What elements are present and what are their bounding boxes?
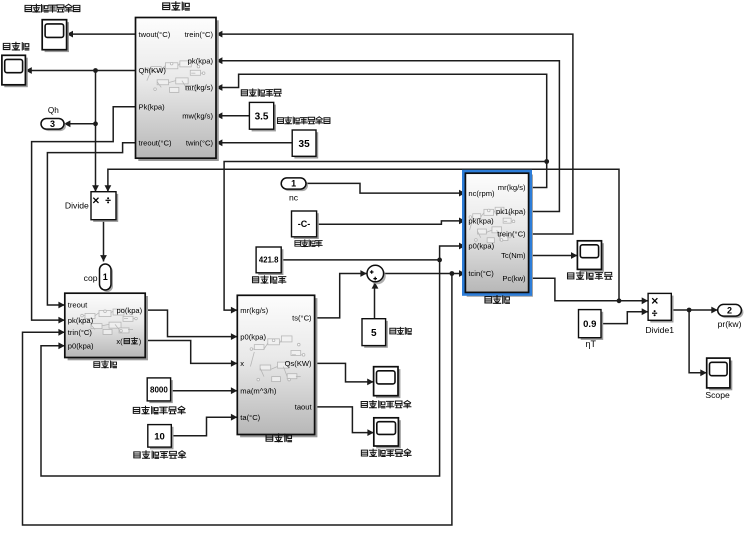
- expansion valve block: [68, 296, 148, 360]
- input port 1 nc: [283, 180, 308, 191]
- svg-text:ma(m^3/h): ma(m^3/h): [240, 386, 277, 395]
- svg-text:x: x: [240, 359, 244, 368]
- svg-text:twin(°C): twin(°C): [186, 139, 214, 148]
- node tcin junction: [450, 271, 455, 276]
- constant 5 superheat: [364, 321, 388, 348]
- wire valve po to evaporator p0: [145, 310, 237, 337]
- svg-text:0.9: 0.9: [583, 319, 596, 330]
- wire treout to valve treout: [47, 143, 135, 305]
- scope block compressor torque: [580, 243, 604, 272]
- wire port nc to compressor nc: [306, 183, 465, 193]
- svg-text:mr(kg/s): mr(kg/s): [185, 83, 213, 92]
- svg-text:2: 2: [727, 305, 732, 315]
- svg-text:8000: 8000: [150, 385, 168, 394]
- constant 0.9 efficiency: [581, 312, 604, 340]
- constant 8000 outdoor air flow: [149, 380, 172, 403]
- wire constant 421.8 to compressor p0 and valve p0: [281, 246, 465, 260]
- wire constant -C- to compressor pk: [317, 221, 466, 224]
- svg-text:ts(°C): ts(°C): [292, 314, 312, 323]
- svg-text:1: 1: [291, 179, 296, 189]
- node Qh junction 2: [93, 121, 98, 126]
- svg-text:5: 5: [371, 328, 377, 339]
- wire constant 0.9 to Divide1: [601, 312, 648, 324]
- svg-text:1: 1: [103, 272, 108, 282]
- wire constant 10 to evaporator ta: [171, 417, 237, 436]
- compressor block (blue selected): [467, 175, 533, 297]
- svg-text:mr(kg/s): mr(kg/s): [240, 306, 268, 315]
- svg-text:mr(kg/s): mr(kg/s): [498, 183, 526, 192]
- constant 3.5 cooling water flow: [252, 105, 276, 132]
- wire valve x to evaporator x: [145, 341, 237, 364]
- constant 421.8 evaporation pressure: [258, 249, 283, 275]
- svg-text:treout: treout: [68, 301, 88, 310]
- svg-text:po(kpa): po(kpa): [116, 306, 142, 315]
- svg-text:x(: x(: [116, 337, 123, 346]
- node Qh junction 1: [93, 68, 98, 73]
- wire Divide output to cop port: [103, 220, 105, 262]
- wire constant 5 to sum: [374, 283, 376, 319]
- node 421.8 junction: [437, 258, 442, 263]
- wire Pc branch to Divide input2: [108, 169, 619, 301]
- node mr junction: [544, 159, 549, 164]
- condenser block: [138, 20, 219, 161]
- svg-text:ηT: ηT: [586, 339, 597, 349]
- scope block cooling water outlet temperature: [45, 22, 69, 52]
- svg-text:pk1(kpa): pk1(kpa): [496, 207, 526, 216]
- svg-text:Pk(kpa): Pk(kpa): [139, 103, 166, 112]
- svg-text:Tc(Nm): Tc(Nm): [501, 251, 526, 260]
- svg-text:cop: cop: [84, 273, 98, 283]
- evaporator block: [240, 298, 317, 437]
- wire Qh to scope and port: [25, 70, 135, 72]
- svg-text:trein(°C): trein(°C): [185, 30, 214, 39]
- node Pc junction: [617, 298, 622, 303]
- svg-text:Pc(kw): Pc(kw): [502, 274, 526, 283]
- output port 3 Qh: [43, 121, 66, 132]
- constant 35 cooling water inlet temp: [294, 132, 318, 158]
- svg-text:pr(kw): pr(kw): [718, 319, 742, 329]
- svg-text:35: 35: [299, 139, 311, 150]
- svg-text:p0(kpa): p0(kpa): [240, 332, 266, 341]
- svg-text:-C-: -C-: [298, 219, 311, 229]
- scope block evaporator heat exchanger: [376, 369, 400, 398]
- svg-text:Divide1: Divide1: [645, 325, 674, 335]
- svg-text:trein(°C): trein(°C): [497, 230, 526, 239]
- svg-text:3: 3: [50, 119, 55, 129]
- wire constant 3.5 to condenser mw: [216, 115, 249, 117]
- scope block Scope: [709, 361, 732, 391]
- wire constant 8000 to evaporator ma: [171, 390, 238, 392]
- svg-text:Qh(KW): Qh(KW): [139, 66, 167, 75]
- wire sum output to compressor tcin and valve trin: [384, 273, 466, 275]
- wire compressor mr out to condenser mr in: [216, 74, 547, 187]
- svg-text:twout(°C): twout(°C): [139, 30, 171, 39]
- node Divide1 output junction: [687, 308, 692, 313]
- svg-text:Qs(KW): Qs(KW): [285, 359, 312, 368]
- wire mr branch to evaporator mr in: [224, 162, 547, 311]
- svg-text:Scope: Scope: [705, 390, 730, 400]
- wire evaporator ts to sum: [315, 274, 367, 318]
- wire twout to scope: [67, 33, 136, 35]
- svg-text:pk(kpa): pk(kpa): [188, 56, 214, 65]
- wire Pk to valve pk: [32, 107, 136, 320]
- svg-text:treout(°C): treout(°C): [139, 139, 172, 148]
- wire Qh branch down to port 3 and Divide: [95, 71, 97, 192]
- scope block heating capacity: [4, 58, 28, 87]
- svg-text:10: 10: [154, 431, 165, 442]
- svg-text:ta(°C): ta(°C): [240, 413, 260, 422]
- svg-text:tcin(°C): tcin(°C): [468, 269, 494, 278]
- wire compressor trein to condenser trein: [216, 34, 573, 234]
- wire Divide1 output to port 2 and Scope: [671, 309, 717, 311]
- sum block: [369, 268, 386, 285]
- svg-text:nc: nc: [289, 193, 299, 203]
- svg-text:p0(kpa): p0(kpa): [68, 342, 94, 351]
- svg-text:Qh: Qh: [48, 106, 59, 115]
- svg-text:p0(kpa): p0(kpa): [468, 242, 494, 251]
- svg-text:pk(kpa): pk(kpa): [68, 316, 94, 325]
- svg-text:Divide: Divide: [65, 201, 89, 211]
- scope block air outlet temperature: [376, 420, 401, 448]
- constant 10 outdoor dry bulb temperature: [150, 427, 174, 450]
- svg-text:nc(rpm): nc(rpm): [468, 189, 495, 198]
- svg-text:mw(kg/s): mw(kg/s): [182, 112, 213, 121]
- wire compressor pk1 to condenser pk: [216, 61, 559, 212]
- output port cop: [102, 266, 114, 292]
- svg-text:421.8: 421.8: [259, 256, 279, 265]
- wire evaporator taout to scope: [315, 407, 374, 433]
- svg-text:3.5: 3.5: [255, 111, 269, 122]
- constant -C- condensing pressure: [294, 213, 319, 239]
- wire constant 35 to condenser twin: [216, 142, 292, 144]
- svg-text:trin(°C): trin(°C): [68, 328, 93, 337]
- Divide block: [93, 194, 118, 222]
- svg-text:taout: taout: [295, 403, 313, 412]
- Divide1 block: [650, 296, 673, 323]
- output port 2 pr(kw): [720, 306, 744, 318]
- wire evaporator Qs to scope: [315, 363, 374, 382]
- wire compressor Tc to torque scope: [529, 255, 578, 257]
- svg-text:pk(kpa): pk(kpa): [468, 217, 494, 226]
- wire compressor Pc to Divide1: [529, 278, 649, 301]
